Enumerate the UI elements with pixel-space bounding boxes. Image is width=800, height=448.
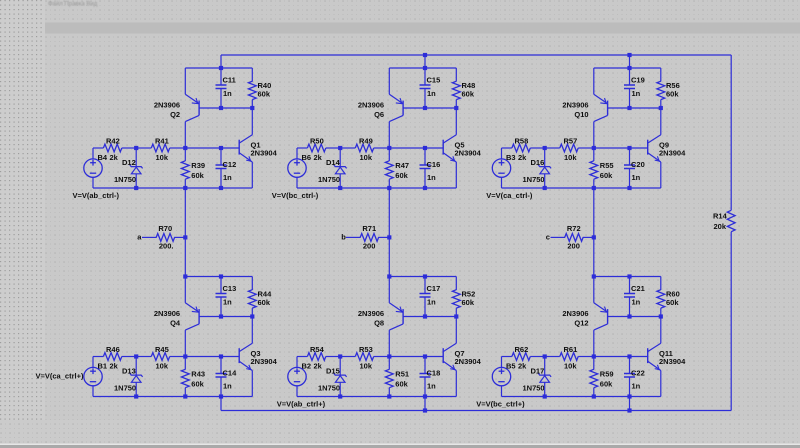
wire <box>544 383 546 397</box>
wire <box>346 236 361 238</box>
wire <box>629 68 631 85</box>
svg-text:Q6: Q6 <box>374 110 384 119</box>
svg-text:C17: C17 <box>427 284 441 293</box>
wire <box>629 89 631 109</box>
wire <box>220 169 222 189</box>
wire <box>340 147 355 149</box>
wire <box>220 397 222 411</box>
wire <box>630 147 648 149</box>
svg-text:60k: 60k <box>258 298 271 307</box>
junction <box>627 186 631 190</box>
wire <box>424 377 426 397</box>
svg-text:B4: B4 <box>98 153 108 162</box>
svg-text:2N3904: 2N3904 <box>251 357 278 366</box>
svg-text:2k: 2k <box>518 153 527 162</box>
transistor Q4 2N3906 <box>185 303 199 330</box>
junction <box>423 53 427 57</box>
wire <box>424 68 426 85</box>
wire <box>135 174 137 188</box>
wire <box>184 330 186 356</box>
resistor R49 <box>355 144 373 152</box>
wire <box>388 277 390 303</box>
junction <box>387 274 391 278</box>
svg-text:2k: 2k <box>314 153 323 162</box>
svg-text:2N3904: 2N3904 <box>659 149 686 158</box>
resistor R43 <box>181 369 189 387</box>
capacitor C12 <box>216 165 227 169</box>
toolbar darker band <box>45 23 800 34</box>
wire <box>424 148 426 165</box>
junction <box>627 314 631 318</box>
wire <box>251 317 253 344</box>
wire <box>424 397 426 411</box>
svg-text:1n: 1n <box>223 382 232 391</box>
svg-text:R57: R57 <box>564 136 578 145</box>
junction <box>627 408 631 412</box>
wire <box>220 89 222 109</box>
wire <box>220 277 222 294</box>
left background window strip <box>0 0 45 420</box>
wire <box>425 147 443 149</box>
svg-text:D12: D12 <box>122 158 136 167</box>
svg-text:R72: R72 <box>567 224 581 233</box>
junction <box>219 146 223 150</box>
junction <box>250 314 254 318</box>
wire <box>297 356 307 358</box>
resistor R57 <box>560 144 578 152</box>
voltage source B5 <box>492 367 510 385</box>
svg-text:1n: 1n <box>632 173 641 182</box>
wire <box>629 357 631 374</box>
wire <box>629 148 631 165</box>
svg-text:C12: C12 <box>223 160 237 169</box>
wire <box>185 356 221 358</box>
resistor R71 <box>360 234 378 242</box>
wire <box>199 316 252 318</box>
svg-text:B3: B3 <box>506 153 516 162</box>
wire <box>424 169 426 189</box>
svg-text:2k: 2k <box>110 153 119 162</box>
junction <box>387 186 391 190</box>
wire <box>660 68 662 82</box>
svg-text:1n: 1n <box>427 173 436 182</box>
zener diode D12 <box>130 165 143 174</box>
svg-text:V=V(ab_ctrl+): V=V(ab_ctrl+) <box>277 399 326 408</box>
wire <box>185 276 252 278</box>
wire <box>339 357 341 376</box>
wire <box>388 388 390 397</box>
junction <box>387 146 391 150</box>
wire <box>594 147 630 149</box>
svg-text:R70: R70 <box>158 224 172 233</box>
svg-text:60k: 60k <box>395 171 408 180</box>
junction <box>183 274 187 278</box>
wire <box>629 169 631 189</box>
resistor R60 <box>657 290 665 308</box>
resistor R40 <box>248 81 256 99</box>
svg-text:V=V(ca_ctrl-): V=V(ca_ctrl-) <box>486 191 533 200</box>
svg-text:1n: 1n <box>223 89 232 98</box>
wire <box>185 67 252 69</box>
svg-text:R71: R71 <box>362 224 376 233</box>
wire <box>608 316 661 318</box>
wire <box>593 68 595 94</box>
resistor R58 <box>512 144 530 152</box>
wire <box>135 383 137 397</box>
svg-text:Файл Правка Вид: Файл Правка Вид <box>48 1 98 8</box>
svg-text:2N3906: 2N3906 <box>358 309 384 318</box>
wire <box>251 68 253 82</box>
node b junction <box>387 235 391 239</box>
wire <box>220 148 222 165</box>
wire <box>142 236 157 238</box>
wire <box>630 356 648 358</box>
svg-text:1N750: 1N750 <box>318 384 340 393</box>
wire <box>424 89 426 109</box>
transistor Q2 2N3906 <box>185 94 199 121</box>
svg-text:1N750: 1N750 <box>318 175 340 184</box>
wire <box>502 147 512 149</box>
resistor R51 <box>385 369 393 387</box>
wire <box>578 147 594 149</box>
resistor R50 <box>307 144 325 152</box>
svg-text:60k: 60k <box>462 90 475 99</box>
wire <box>730 55 732 210</box>
svg-text:2N3904: 2N3904 <box>455 357 482 366</box>
wire <box>544 174 546 188</box>
resistor R42 <box>103 144 121 152</box>
zener diode D14 <box>334 165 347 174</box>
node c junction <box>592 235 596 239</box>
svg-text:b: b <box>341 233 346 242</box>
svg-text:Q8: Q8 <box>374 319 384 328</box>
junction <box>659 106 663 110</box>
wire <box>502 396 661 398</box>
junction <box>423 408 427 412</box>
junction <box>592 186 596 190</box>
wire <box>340 356 355 358</box>
svg-text:200: 200 <box>567 242 580 251</box>
resistor R70 <box>156 234 174 242</box>
wire <box>502 356 512 358</box>
wire <box>199 107 252 109</box>
wire <box>455 162 457 188</box>
zener diode D13 <box>130 373 143 382</box>
wire <box>629 297 631 317</box>
svg-text:60k: 60k <box>666 90 679 99</box>
svg-text:Q4: Q4 <box>170 319 181 328</box>
svg-text:D17: D17 <box>531 366 545 375</box>
svg-text:R43: R43 <box>191 369 205 378</box>
svg-text:C15: C15 <box>427 76 441 85</box>
wire <box>455 371 457 397</box>
svg-text:200: 200 <box>363 242 376 251</box>
wire <box>389 147 425 149</box>
svg-text:D14: D14 <box>326 158 341 167</box>
junction <box>592 394 596 398</box>
wire <box>403 316 456 318</box>
resistor R45 <box>151 353 169 361</box>
junction <box>454 314 458 318</box>
bottom pane <box>0 420 800 444</box>
wire <box>251 371 253 397</box>
wire <box>660 371 662 397</box>
transistor Q8 2N3906 <box>389 303 403 330</box>
wire <box>455 68 457 82</box>
wire <box>135 148 137 167</box>
capacitor C13 <box>216 294 227 298</box>
wire <box>92 357 94 368</box>
svg-text:60k: 60k <box>191 171 204 180</box>
wire <box>629 277 631 294</box>
wire <box>455 100 457 108</box>
svg-text:D15: D15 <box>326 366 340 375</box>
wire <box>629 55 631 68</box>
zener diode D17 <box>538 373 551 382</box>
voltage source B2 <box>288 367 306 385</box>
svg-text:2k: 2k <box>518 362 527 371</box>
svg-text:Q10: Q10 <box>574 110 588 119</box>
junction <box>219 354 223 358</box>
junction <box>219 314 223 318</box>
wire <box>184 148 186 161</box>
transistor Q9 2N3904 <box>648 135 661 162</box>
junction <box>219 186 223 190</box>
svg-text:60k: 60k <box>191 380 204 389</box>
transistor Q5 2N3904 <box>443 135 456 162</box>
wire <box>388 237 390 276</box>
svg-text:2N3906: 2N3906 <box>358 101 384 110</box>
svg-text:C16: C16 <box>427 160 441 169</box>
wire <box>389 67 456 69</box>
svg-text:R47: R47 <box>395 161 409 170</box>
wire <box>339 383 341 397</box>
svg-text:2N3906: 2N3906 <box>562 309 588 318</box>
svg-text:Q2: Q2 <box>170 110 180 119</box>
wire <box>593 357 595 370</box>
capacitor C19 <box>624 85 635 89</box>
svg-text:C22: C22 <box>631 368 645 377</box>
wire <box>296 148 298 159</box>
svg-text:R49: R49 <box>359 136 373 145</box>
svg-text:R14: R14 <box>713 211 728 220</box>
wire <box>170 147 186 149</box>
junction <box>219 394 223 398</box>
resistor R72 <box>565 234 583 242</box>
svg-text:R55: R55 <box>600 161 614 170</box>
wire <box>185 147 221 149</box>
wire <box>424 297 426 317</box>
wire bottom bus <box>221 410 731 412</box>
svg-text:R58: R58 <box>515 136 529 145</box>
svg-text:2k: 2k <box>110 362 119 371</box>
wire <box>389 276 456 278</box>
svg-text:C18: C18 <box>427 368 441 377</box>
wire <box>220 377 222 397</box>
resistor R39 <box>181 161 189 179</box>
wire <box>593 277 595 303</box>
wire <box>424 277 426 294</box>
junction <box>338 354 342 358</box>
wire <box>583 236 594 238</box>
svg-text:200.: 200. <box>159 242 174 251</box>
transistor Q3 2N3904 <box>239 343 252 370</box>
wire <box>122 356 136 358</box>
resistor R61 <box>560 353 578 361</box>
junction <box>134 146 138 150</box>
capacitor C11 <box>216 85 227 89</box>
wire <box>122 147 136 149</box>
wire <box>424 357 426 374</box>
wire <box>184 122 186 148</box>
svg-text:R41: R41 <box>155 136 169 145</box>
wire <box>251 308 253 316</box>
junction <box>219 274 223 278</box>
resistor R46 <box>103 353 121 361</box>
junction <box>627 106 631 110</box>
junction <box>543 354 547 358</box>
svg-text:1n: 1n <box>223 298 232 307</box>
svg-text:D13: D13 <box>122 366 136 375</box>
junction <box>627 146 631 150</box>
wire <box>593 179 595 188</box>
wire <box>184 357 186 370</box>
wire <box>184 179 186 188</box>
node a junction <box>183 235 187 239</box>
junction <box>454 106 458 110</box>
wire <box>660 108 662 135</box>
wire <box>251 277 253 291</box>
svg-text:2k: 2k <box>314 362 323 371</box>
svg-text:10k: 10k <box>156 153 169 162</box>
wire <box>296 386 298 397</box>
wire <box>184 237 186 276</box>
svg-text:1n: 1n <box>632 89 641 98</box>
wire <box>593 148 595 161</box>
svg-text:B6: B6 <box>302 153 312 162</box>
wire <box>93 356 103 358</box>
wire <box>594 67 661 69</box>
wire <box>530 147 544 149</box>
junction <box>387 394 391 398</box>
svg-text:R54: R54 <box>310 345 325 354</box>
wire <box>374 147 390 149</box>
svg-text:D16: D16 <box>531 158 545 167</box>
wire top supply bus <box>221 54 731 56</box>
wire <box>339 174 341 188</box>
svg-text:C11: C11 <box>223 76 236 85</box>
resistor R41 <box>151 144 169 152</box>
wire <box>544 148 546 167</box>
svg-text:60k: 60k <box>600 171 613 180</box>
voltage source B3 <box>492 159 510 177</box>
zener diode D16 <box>538 165 551 174</box>
svg-text:1N750: 1N750 <box>523 384 545 393</box>
junction <box>387 354 391 358</box>
wire <box>501 357 503 368</box>
svg-text:1N750: 1N750 <box>523 175 545 184</box>
svg-text:2N3906: 2N3906 <box>154 101 180 110</box>
svg-text:c: c <box>546 233 550 242</box>
capacitor C15 <box>420 85 431 89</box>
wire <box>388 188 390 237</box>
wire <box>388 148 390 161</box>
wire <box>608 107 661 109</box>
wire <box>501 148 503 159</box>
wire <box>501 177 503 188</box>
svg-text:R51: R51 <box>395 369 409 378</box>
junction <box>338 186 342 190</box>
capacitor C18 <box>420 374 431 378</box>
resistor R47 <box>385 161 393 179</box>
wire <box>594 356 630 358</box>
wire <box>296 177 298 188</box>
junction <box>134 354 138 358</box>
wire <box>297 396 456 398</box>
junction <box>134 394 138 398</box>
wire <box>593 237 595 276</box>
wire <box>629 377 631 397</box>
wire <box>136 147 151 149</box>
svg-text:10k: 10k <box>360 153 373 162</box>
wire <box>660 277 662 291</box>
wire <box>578 356 594 358</box>
wire <box>455 308 457 316</box>
transistor Q11 2N3904 <box>648 343 661 370</box>
wire <box>220 297 222 317</box>
wire <box>403 107 456 109</box>
svg-text:10k: 10k <box>564 153 577 162</box>
svg-text:R45: R45 <box>155 345 169 354</box>
wire <box>296 357 298 368</box>
svg-text:1n: 1n <box>427 89 436 98</box>
wire <box>455 277 457 291</box>
svg-text:1N750: 1N750 <box>114 384 136 393</box>
wire <box>378 236 389 238</box>
wire <box>593 122 595 148</box>
wire <box>660 100 662 108</box>
svg-text:R42: R42 <box>106 136 120 145</box>
resistor R48 <box>452 81 460 99</box>
junction <box>543 186 547 190</box>
wire <box>221 147 239 149</box>
junction <box>134 186 138 190</box>
resistor R14 <box>727 210 735 231</box>
wire <box>660 308 662 316</box>
junction <box>659 314 663 318</box>
junction <box>423 106 427 110</box>
wire <box>388 330 390 356</box>
junction <box>219 66 223 70</box>
capacitor C22 <box>624 374 635 378</box>
wire <box>425 356 443 358</box>
wire <box>93 187 252 189</box>
wire <box>545 356 560 358</box>
svg-text:V=V(bc_ctrl+): V=V(bc_ctrl+) <box>476 399 525 408</box>
wire <box>389 356 425 358</box>
junction <box>250 106 254 110</box>
svg-text:R53: R53 <box>359 345 373 354</box>
wire <box>545 147 560 149</box>
voltage source B6 <box>288 159 306 177</box>
junction <box>627 66 631 70</box>
wire <box>455 317 457 344</box>
capacitor C16 <box>420 165 431 169</box>
wire <box>92 177 94 188</box>
junction <box>183 354 187 358</box>
transistor Q10 2N3906 <box>594 94 608 121</box>
wire <box>251 162 253 188</box>
